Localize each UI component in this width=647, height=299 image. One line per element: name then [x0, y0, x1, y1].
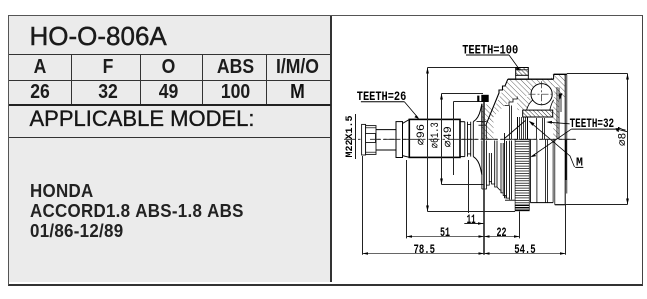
lower body verticals: [529, 139, 531, 202]
hatch: inner race left of ball: [517, 97, 531, 110]
bore spline steps: [505, 97, 518, 106]
svg-text:51: 51: [440, 225, 450, 240]
dimension dia87 (right): [567, 73, 628, 75]
fillet curves shaft to joint body: [473, 104, 482, 122]
shaft neck: [376, 129, 396, 131]
dimension 11: [464, 223, 484, 225]
body bottom edges: [530, 202, 553, 204]
svg-text:78.5: 78.5: [414, 242, 436, 257]
title HO-O-806A: [30, 21, 320, 51]
washer at thread end: [362, 124, 366, 155]
boot cylinder surface lines: [477, 121, 487, 123]
spline cylinder (TEETH=26): [409, 119, 460, 157]
application text block: [30, 181, 244, 241]
ABS toothed ring, side view (striped band): [515, 140, 529, 211]
svg-text:22: 22: [497, 225, 507, 240]
dimension 54.5: [484, 253, 566, 255]
bore cone edge: [505, 120, 526, 138]
values row 26 32 49 100 M: [13, 81, 68, 104]
wire: centerline overlay: [370, 138, 578, 140]
svg-text:∅61.3: ∅61.3: [430, 122, 442, 148]
race shoulder arcs: [527, 100, 533, 110]
body top edge: [508, 78, 554, 80]
svg-text:∅87: ∅87: [617, 126, 629, 146]
hatch: boot land strip: [482, 105, 494, 140]
chamfer into spline cylinder: [403, 120, 410, 124]
dimension 51: [407, 236, 485, 238]
rim top edge: [554, 73, 567, 75]
boot groove rib verticals upper: [481, 104, 483, 140]
bore edge pair upper: [509, 106, 511, 140]
dimension 22: [484, 236, 520, 238]
dimension lines dia49: [453, 102, 455, 176]
threaded section: [366, 126, 376, 155]
left gray panel: [9, 16, 332, 282]
retaining ring land: [396, 122, 403, 158]
dimension lines dia96: [427, 68, 429, 212]
svg-text:11: 11: [467, 212, 476, 227]
hatch: right corner block: [551, 74, 565, 97]
black cage corner wedge: [559, 94, 563, 100]
boot clamp (solid) + dia61.3 arrow: [481, 95, 488, 102]
ball (sphere) of CV joint: [531, 84, 552, 105]
ABS ring cross-section block (top, hatched): [516, 68, 529, 76]
lower boot groove ribs (staircase): [481, 141, 483, 190]
svg-text:54.5: 54.5: [514, 242, 536, 257]
svg-text:∅96: ∅96: [416, 124, 428, 145]
hatch: left sloped wall of outer race: [487, 79, 518, 124]
rim chamfer + right faces: [564, 74, 566, 205]
header row A F O ABS I/M/O: [13, 56, 68, 79]
inner spline strip: [517, 117, 519, 139]
dimension lines dia61.3: [441, 94, 443, 185]
hatch: cage band: [523, 110, 553, 117]
body outline: left slope with steps: [486, 79, 508, 124]
dimension 78.5: [363, 253, 485, 255]
APPLICABLE MODEL:: [30, 106, 255, 132]
shaft end stub (square): [366, 134, 376, 143]
boot groove on shaft: [464, 122, 466, 157]
cage track verticals above centerline: [536, 118, 538, 139]
svg-text:M22X1.5: M22X1.5: [344, 116, 356, 158]
extension lines: [362, 156, 364, 255]
hatch: top band above ball: [517, 79, 552, 97]
wire: main centerline (dash-dot): [344, 138, 578, 140]
table grid lines: [9, 54, 331, 55]
shaft neck right of spline cylinder: [460, 121, 465, 123]
